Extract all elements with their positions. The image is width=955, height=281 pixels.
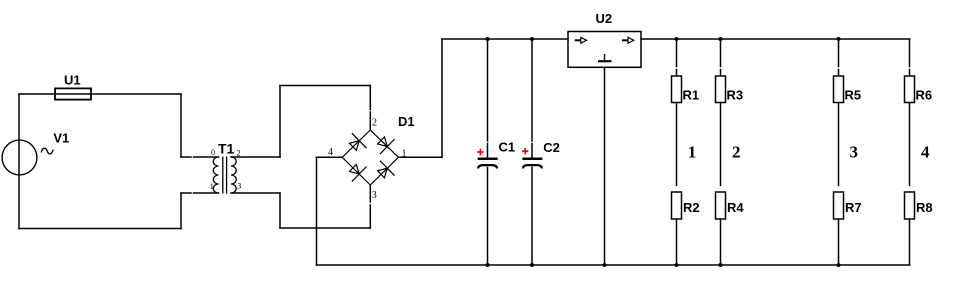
- wire: output riser: [441, 39, 443, 157]
- svg-text:1: 1: [688, 143, 697, 162]
- voltage source V1: [2, 140, 53, 175]
- svg-text:2: 2: [732, 143, 741, 162]
- svg-text:R3: R3: [727, 88, 744, 103]
- wire: T1 secondary top pin to riser: [231, 156, 280, 158]
- U2 output arrow: [622, 37, 634, 43]
- diode bridge D1: [342, 130, 398, 185]
- wire: branch2 verticals: [720, 39, 722, 67]
- svg-text:3: 3: [237, 182, 241, 191]
- T1 core: [222, 157, 224, 194]
- svg-text:C2: C2: [543, 140, 560, 155]
- resistor R3: [716, 76, 726, 103]
- svg-text:2: 2: [372, 118, 377, 129]
- resistor R4: [716, 192, 726, 219]
- D1 diode bottom-left (4 to 3): [346, 160, 367, 181]
- wire: riser from T1 pin2: [279, 86, 281, 158]
- capacitor C2: [522, 159, 542, 169]
- wire: left loop bottom: [19, 228, 181, 230]
- svg-text:1: 1: [210, 182, 214, 191]
- D1 diode top-right (2 to 1): [374, 133, 395, 154]
- wire: right side of left loop lower: [180, 193, 182, 229]
- T1 primary coil: [213, 157, 218, 193]
- U2 input arrow: [575, 37, 587, 43]
- wire: bottom rail: [317, 264, 910, 266]
- wire: top rail left of U2: [442, 38, 568, 40]
- C1 plus sign: [477, 149, 483, 155]
- U2 ground symbol: [598, 54, 612, 61]
- wire: up to bridge bottom vertex: [369, 205, 371, 228]
- C2 plus sign: [522, 148, 528, 154]
- wire: T1 secondary bottom pin: [231, 192, 280, 194]
- wire: branch3 verticals: [838, 39, 840, 67]
- resistor R8: [905, 192, 915, 219]
- svg-text:R6: R6: [916, 88, 933, 103]
- junction bottom C1: [486, 263, 490, 267]
- svg-text:V1: V1: [53, 131, 69, 146]
- junction bottom branch3: [837, 263, 841, 267]
- wire: right side of left loop upper: [180, 94, 182, 157]
- junction bottom U2: [603, 263, 607, 267]
- wire: left loop top (V1 to T1 primary, through fuse): [19, 93, 181, 95]
- svg-text:D1: D1: [398, 114, 415, 129]
- D1 diamond sides: [342, 130, 370, 157]
- wire: left loop left vertical through V1: [18, 94, 20, 229]
- wire: C2 bottom lead: [531, 168, 533, 266]
- svg-text:3: 3: [850, 143, 859, 162]
- wire: run to bridge pin3: [280, 227, 370, 229]
- wire: T1 primary bottom pin: [181, 192, 191, 194]
- svg-text:U2: U2: [596, 11, 613, 26]
- wire: T1 primary top pin: [181, 156, 191, 158]
- svg-text:R8: R8: [916, 200, 933, 215]
- svg-text:4: 4: [921, 143, 930, 162]
- svg-text:2: 2: [237, 149, 241, 158]
- junction top branch1: [675, 37, 679, 41]
- wire: bridge pin4 to ground drop: [317, 156, 343, 158]
- svg-text:3: 3: [372, 190, 377, 201]
- wire: C1 bottom lead: [487, 168, 489, 266]
- junction top branch3: [837, 37, 841, 41]
- junction top C2: [530, 37, 534, 41]
- resistor R1: [672, 76, 682, 103]
- wire: top rail right of U2: [641, 38, 910, 40]
- resistor R7: [834, 192, 844, 219]
- junction bottom branch2: [719, 263, 723, 267]
- D1 diode top-left (4 to 2): [346, 133, 367, 154]
- resistor R5: [834, 76, 844, 103]
- capacitor C1: [478, 159, 498, 169]
- junction bottom C2: [530, 263, 534, 267]
- D1 diode bottom-right (3 to 1): [374, 161, 395, 182]
- voltage regulator U2: [568, 32, 641, 68]
- svg-text:4: 4: [328, 147, 333, 158]
- fuse U1: [55, 88, 91, 99]
- resistor R6: [905, 76, 915, 103]
- svg-text:T1: T1: [218, 141, 235, 157]
- svg-text:U1: U1: [64, 73, 81, 88]
- junction top C1: [486, 37, 490, 41]
- wire: ground drop vertical: [316, 157, 318, 265]
- svg-text:R4: R4: [727, 200, 744, 215]
- resistor R2: [672, 192, 682, 219]
- wire: C1 top lead: [487, 39, 489, 141]
- svg-text:R2: R2: [683, 200, 700, 215]
- wire: bridge pin1 output: [398, 156, 442, 158]
- wire: U2 ground pin to bottom rail: [604, 67, 606, 265]
- wire: branch4 verticals: [909, 39, 911, 67]
- wire: drop to bridge top vertex: [369, 86, 371, 110]
- wire: top run to bridge pin2: [280, 85, 370, 87]
- svg-text:0: 0: [211, 148, 215, 157]
- wire: C2 top lead: [531, 39, 533, 141]
- wire: branch1 verticals: [676, 39, 678, 67]
- T1 secondary coil: [231, 157, 236, 193]
- transformer T1: [213, 157, 236, 194]
- wire: drop from T1 pin3: [279, 193, 281, 228]
- svg-text:1: 1: [402, 149, 407, 160]
- junction top branch2: [719, 37, 723, 41]
- svg-text:R1: R1: [683, 88, 700, 103]
- junction bottom branch1: [675, 263, 679, 267]
- svg-text:R5: R5: [845, 88, 862, 103]
- svg-text:R7: R7: [845, 200, 862, 215]
- svg-text:C1: C1: [499, 140, 516, 155]
